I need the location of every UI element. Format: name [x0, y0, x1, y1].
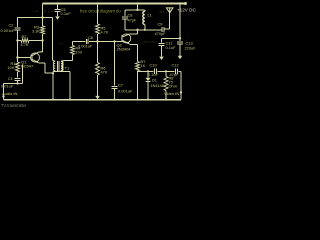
node junction x42 y17 — [41, 16, 43, 18]
svg-text:0.1uF: 0.1uF — [44, 9, 55, 14]
wire D1 to rail — [147, 81, 149, 99]
wire C2 to base node — [17, 30, 19, 58]
resistor R4 — [71, 46, 75, 55]
node dot x137 y30 — [136, 29, 138, 31]
svg-text:4.7K: 4.7K — [21, 42, 29, 47]
resistor R3 — [41, 26, 45, 34]
svg-text:R2: R2 — [22, 34, 27, 39]
wire rail stub x137 top — [137, 4, 139, 10]
svg-text:Ohm: Ohm — [169, 84, 177, 89]
transistor Q2 base bar — [121, 35, 123, 42]
ground arrow below C5 — [55, 16, 60, 19]
wire C7 to rail — [114, 88, 116, 99]
transistor Q1 collector — [32, 52, 39, 56]
capacitor C9 — [161, 27, 163, 32]
capacitor C1 — [15, 77, 21, 79]
antenna A1 symbol — [166, 8, 173, 13]
svg-text:C9: C9 — [158, 22, 163, 27]
resistor R1 — [17, 58, 19, 63]
wire R5 to node — [97, 34, 99, 42]
svg-text:C2: C2 — [9, 22, 14, 27]
resistor R5 — [96, 24, 100, 34]
node junction x97 y41 — [96, 40, 98, 42]
wire R8 to rail — [165, 91, 167, 100]
transformer T1 primary winding — [53, 61, 55, 70]
transistor Q2 collector — [123, 34, 130, 37]
wire to C11 branch — [162, 37, 181, 39]
wire emitter to x45 — [39, 62, 46, 64]
svg-text:TV transmitter: TV transmitter — [1, 103, 27, 108]
wire Q2 collector jog — [128, 33, 131, 35]
transistor Q2 emitter with arrow — [123, 41, 129, 44]
node dot L1 bottom — [144, 29, 146, 31]
wire x70 to ground rail — [69, 72, 71, 100]
wire to R2 — [18, 40, 22, 42]
wire C11 drop — [161, 38, 163, 42]
node dot x148 ground — [147, 98, 149, 100]
node dot x137 ground — [136, 98, 138, 100]
svg-text:C7: C7 — [59, 42, 64, 46]
wire x114 down — [114, 42, 116, 86]
wire R2 to x42 — [29, 40, 43, 42]
svg-text:220uF: 220uF — [185, 45, 197, 50]
capacitor C7 — [112, 85, 118, 87]
capacitor C11 — [159, 43, 165, 45]
wire C8 to bottom bus — [124, 19, 126, 30]
wire input down to ground rail — [3, 84, 5, 100]
wire tank bottom bus — [125, 29, 161, 31]
wire T1 secondary top to R4 — [61, 60, 64, 61]
node dot rail x137 — [136, 2, 138, 4]
wire to T1 bottom left — [45, 72, 53, 74]
node dot rail x180 — [179, 2, 181, 4]
wire node x97 to Q2 base — [98, 41, 122, 43]
svg-text:3.3K: 3.3K — [32, 29, 40, 34]
transistor Q1 circle — [31, 53, 40, 62]
svg-text:1K: 1K — [141, 63, 146, 68]
wire R1 to C1 — [17, 72, 19, 77]
capacitor C10 — [154, 69, 156, 74]
wire node to R3 top — [42, 18, 44, 27]
node junction x180 y38 — [179, 37, 181, 39]
node junction x17 y83 — [16, 82, 18, 84]
svg-text:D1: D1 — [152, 79, 157, 83]
node dot video terminal — [180, 91, 182, 93]
wire R4 top to corner — [72, 42, 74, 46]
wire R4 corner to C6 — [73, 41, 86, 43]
svg-text:Audio IN: Audio IN — [2, 91, 17, 96]
wire tank top bus — [125, 9, 145, 11]
node junction x148 y71 — [147, 70, 149, 72]
svg-text:T1: T1 — [65, 66, 70, 71]
wire R3 bottom to Q1 collector jog — [42, 34, 44, 52]
wire T1 bottom bus — [53, 71, 70, 73]
svg-text:C6: C6 — [88, 35, 93, 40]
transistor Q2 circle — [122, 34, 131, 43]
inductor L1 — [144, 10, 146, 12]
wire C10 to R8 node — [157, 70, 174, 72]
node +12V terminal dot — [184, 2, 187, 5]
wire C13 to ground arrow — [179, 44, 181, 56]
wire C11 to ground arrow — [161, 46, 163, 57]
svg-text:0.1uF: 0.1uF — [61, 11, 72, 16]
wire rail to node at x42 — [42, 4, 44, 18]
wire x45 down — [44, 63, 46, 73]
svg-text:0.001uF: 0.001uF — [118, 88, 133, 93]
wire R6 to ground arrow — [97, 75, 99, 96]
node junction x166 y71 — [165, 70, 167, 72]
wire +12V top rail — [43, 3, 187, 5]
wire corner down to C2 — [17, 18, 19, 28]
svg-text:47pF: 47pF — [128, 18, 137, 23]
node dot x166 ground — [165, 98, 167, 100]
capacitor C5 — [55, 9, 61, 11]
svg-text:4.7K: 4.7K — [101, 30, 109, 35]
svg-text:L1: L1 — [148, 12, 152, 17]
node input terminal dot — [2, 95, 4, 97]
node Q1 base junction — [16, 56, 18, 58]
wire +12V drop x180 — [179, 4, 181, 41]
node junction x114 y41 — [113, 40, 115, 42]
svg-text:free circuit diagram do: free circuit diagram do — [80, 8, 121, 13]
node junction x17 y40 — [16, 39, 18, 41]
wire T1 primary bottom — [54, 71, 56, 72]
ground arrow below C11 — [159, 57, 164, 60]
wire emitter bypass branch x22 — [22, 65, 24, 84]
capacitor C8 — [122, 16, 128, 18]
wire x148 down — [147, 71, 149, 77]
wire node to R6 — [97, 42, 99, 63]
wire Q2 emitter jog — [130, 44, 138, 46]
node dot x137 y10 — [136, 9, 138, 11]
wire C5 to ground — [57, 12, 59, 17]
wire C8 drop — [124, 10, 126, 16]
svg-text:10K: 10K — [8, 65, 15, 70]
wire video line y71 — [137, 70, 139, 73]
svg-text:1N4148: 1N4148 — [151, 84, 164, 88]
svg-text:470pF: 470pF — [155, 31, 167, 36]
svg-text:C4: C4 — [33, 9, 39, 14]
transistor Q1 base bar — [31, 54, 33, 61]
svg-text:C10: C10 — [150, 63, 158, 68]
wire C12 to corner x181 — [178, 70, 181, 72]
wire x53 to ground rail — [52, 72, 54, 100]
resistor R7 — [136, 62, 140, 71]
svg-text:0.01uF: 0.01uF — [1, 84, 14, 89]
svg-text:C12: C12 — [172, 63, 179, 68]
svg-text:100: 100 — [76, 50, 83, 55]
svg-text:C7: C7 — [118, 82, 123, 87]
wire C9 to antenna corner — [164, 28, 170, 30]
ground arrow below C13 — [178, 56, 183, 59]
capacitor C2 — [15, 27, 21, 29]
wire C1 to input line — [17, 80, 19, 83]
svg-text:0.1uF: 0.1uF — [148, 72, 159, 77]
svg-text:A1: A1 — [160, 9, 165, 14]
diode D1 — [145, 78, 150, 81]
resistor R6 — [96, 63, 100, 76]
wire R7 node to ground rail — [137, 71, 139, 99]
capacitor C13 — [177, 41, 183, 43]
node dot rail x57 — [56, 2, 58, 4]
node dot x53 ground — [52, 98, 54, 100]
transistor Q1 emitter with arrow — [32, 59, 38, 62]
ground arrow at rail x97 — [95, 96, 100, 99]
node dot rail x97 — [96, 2, 98, 4]
wire corner x52 down to T1 primary — [52, 18, 54, 61]
resistor R2 — [21, 39, 29, 43]
capacitor C12 — [175, 69, 177, 74]
node junction x42 y40 — [41, 39, 43, 41]
svg-text:0.001uF: 0.001uF — [1, 28, 16, 33]
resistor R8 — [164, 77, 168, 91]
wire R8 drop — [165, 71, 167, 76]
wire T1 secondary bottom — [60, 71, 62, 72]
capacitor C6 — [85, 39, 87, 44]
transformer T1 secondary winding — [61, 61, 63, 70]
wire input horizontal y83 — [4, 83, 23, 85]
node dot x70 ground — [69, 98, 71, 100]
svg-text:dot com: dot com — [143, 39, 158, 44]
node dot at x53 y73 — [52, 72, 54, 74]
svg-text:2N3904: 2N3904 — [117, 47, 132, 52]
wire L1 to bottom bus — [144, 25, 146, 30]
wire x181 down to rail — [180, 71, 182, 99]
node dot x114 ground — [113, 98, 115, 100]
svg-text:0.1uF: 0.1uF — [166, 45, 177, 50]
svg-text:C1: C1 — [8, 76, 13, 81]
svg-text:47K: 47K — [101, 70, 108, 75]
wire bottom ground rail — [4, 99, 182, 101]
wire top horizontal y17 — [18, 17, 53, 19]
transformer T1 core — [56, 61, 58, 71]
wire base to Q1 — [18, 57, 32, 59]
wire C5 drop from rail — [57, 4, 59, 10]
wire rail to R5 — [97, 4, 99, 25]
svg-text:0.001uF: 0.001uF — [78, 44, 93, 49]
wire C6 to node x97 — [89, 41, 98, 43]
